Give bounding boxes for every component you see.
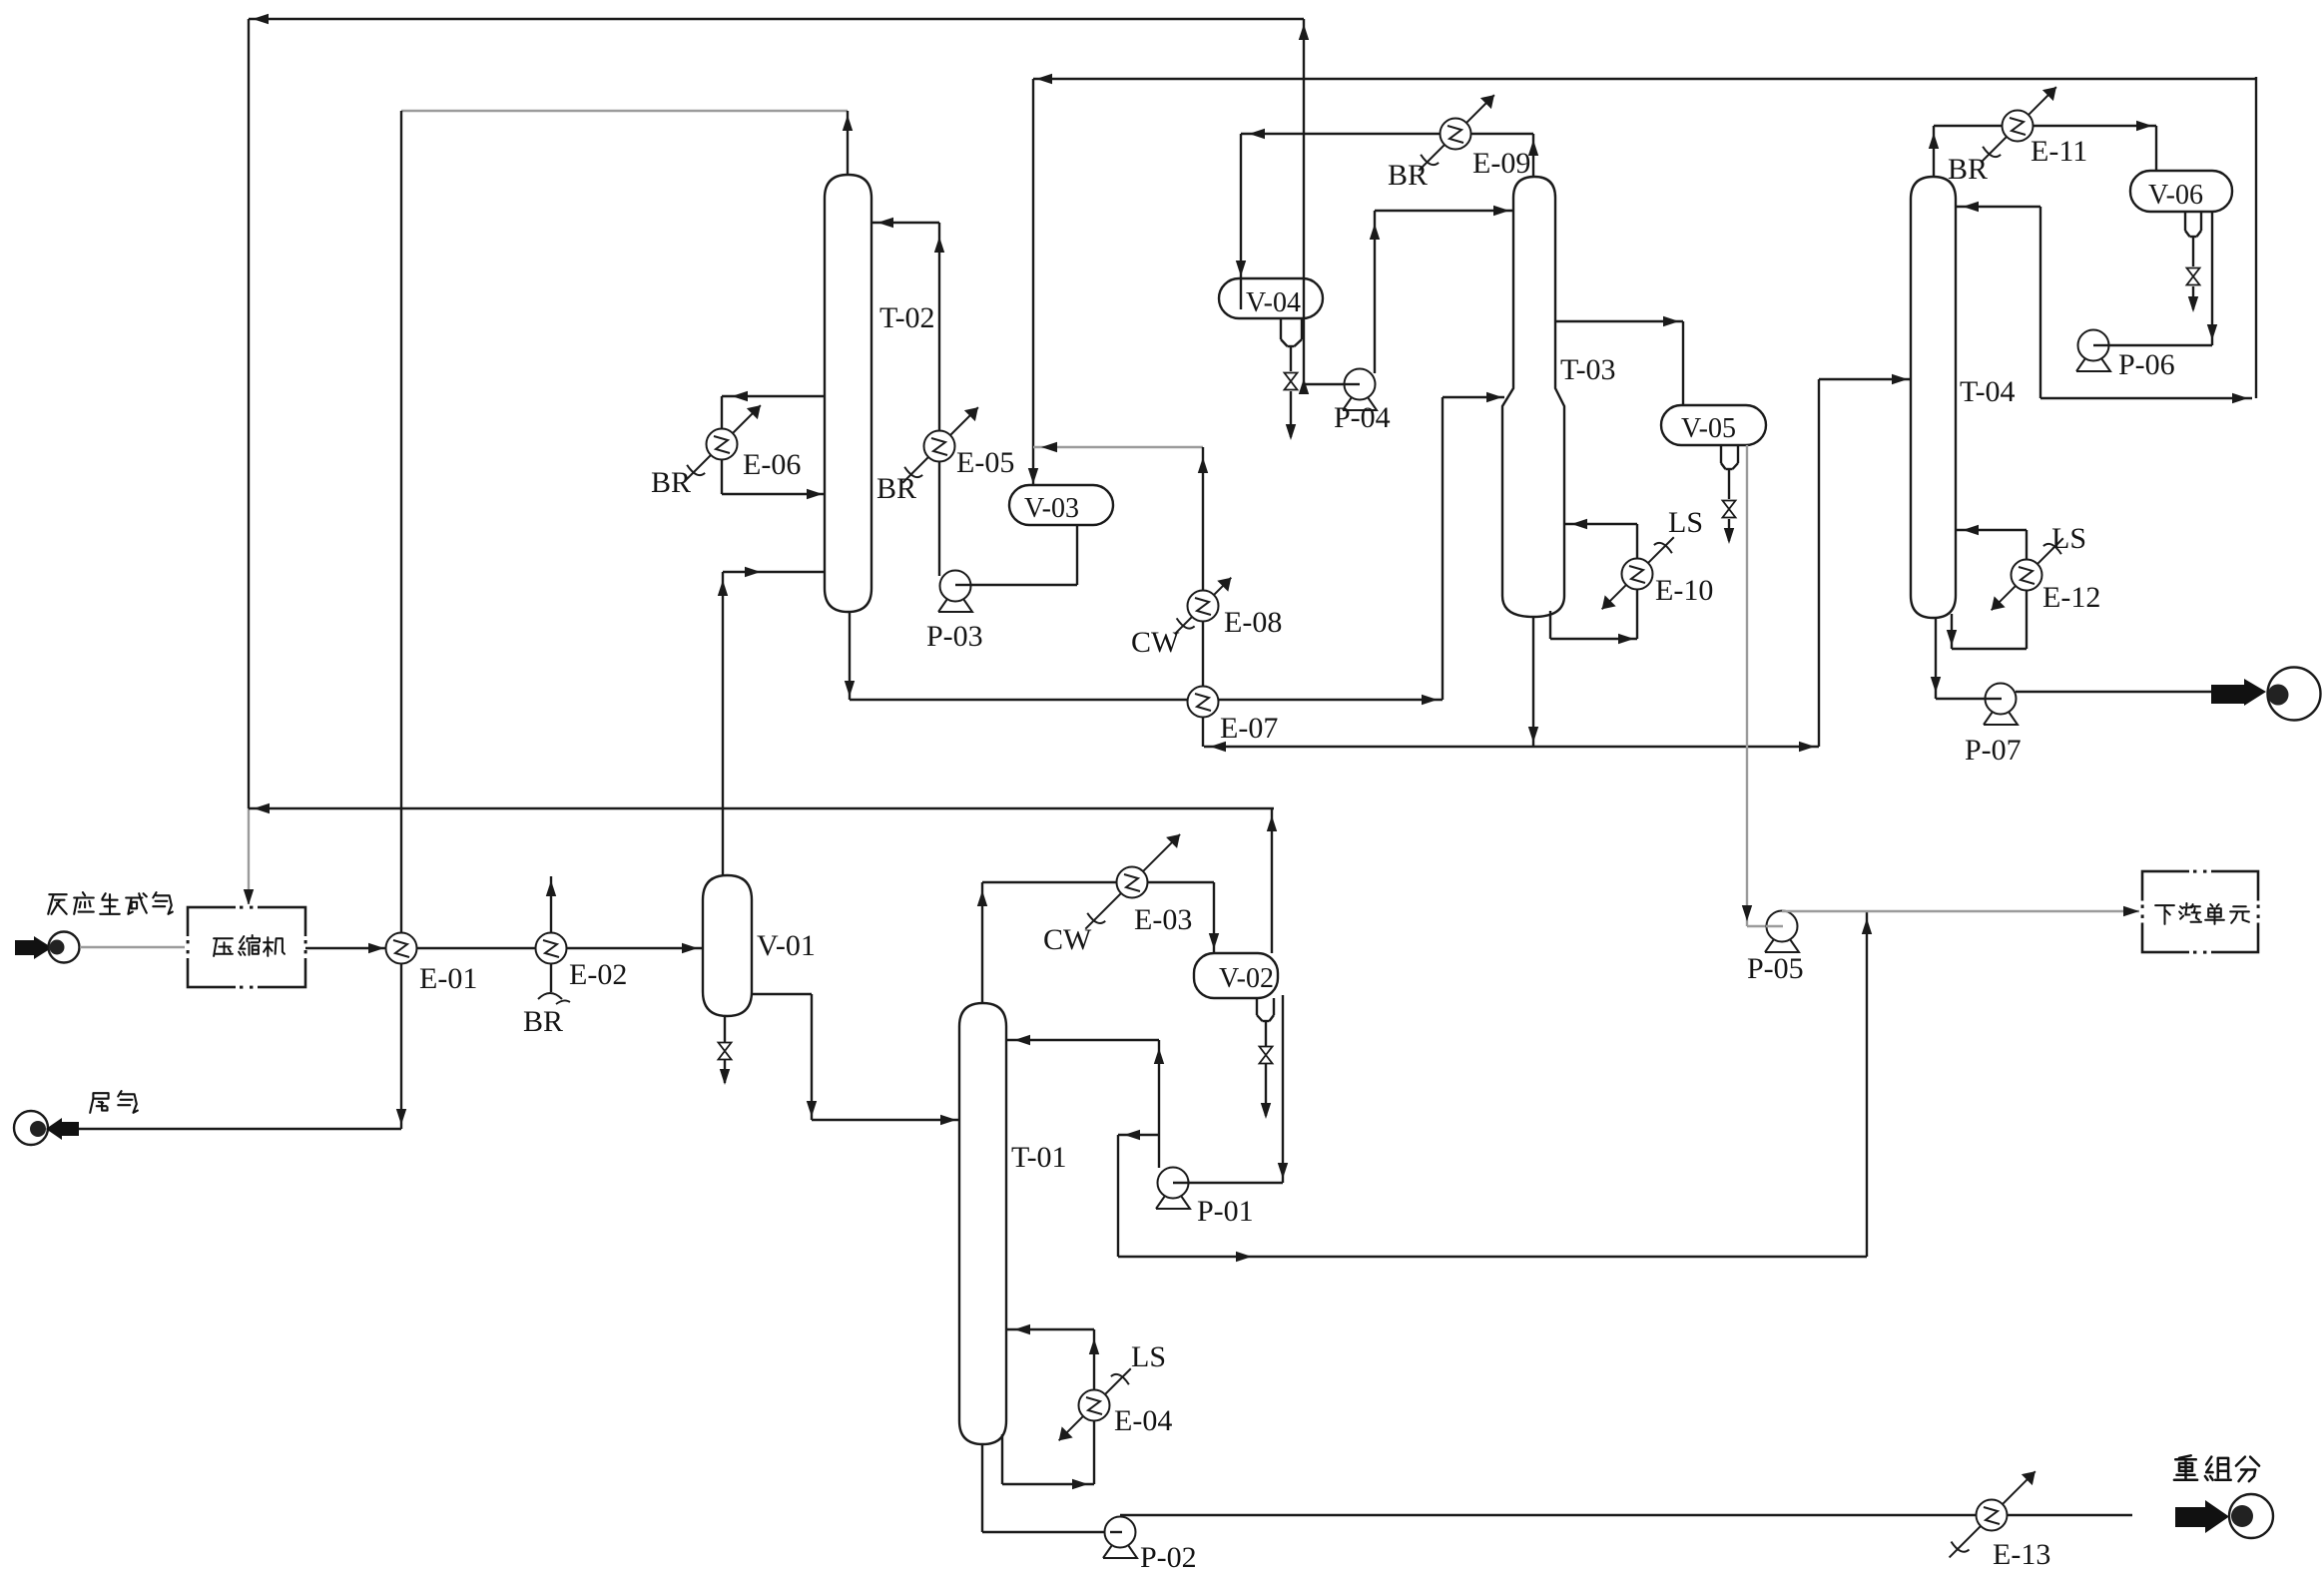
valve under V-02 [1260, 1021, 1273, 1119]
svg-text:LS: LS [2051, 522, 2086, 555]
node outlet right symbol [2211, 668, 2321, 721]
label P-05 [1747, 952, 1804, 985]
vessel V-06 [2130, 171, 2232, 212]
svg-text:LS: LS [1131, 1340, 1166, 1373]
pump P-06 [2076, 330, 2110, 372]
wire T-02 bottoms y701 to T-03 feed [845, 392, 1504, 705]
node outlet 重组分 symbol [2175, 1494, 2273, 1538]
wire P-01 discharge riser and reflux [1007, 1035, 1164, 1168]
label LS for E-10 [1668, 506, 1703, 539]
svg-text:P-01: P-01 [1197, 1195, 1254, 1228]
svg-text:E-07: E-07 [1220, 712, 1278, 745]
heat exchanger E-09 with BR [1419, 95, 1494, 171]
svg-text:V-06: V-06 [2148, 180, 2203, 211]
svg-text:T-01: T-01 [1011, 1141, 1067, 1174]
reboiler loop E-06 wires [722, 391, 825, 499]
label 尾气 [90, 1091, 138, 1113]
wire recycle top line y19 [249, 14, 1304, 24]
wire V-02 riser x1276 [1267, 808, 1277, 953]
vessel V-01 [703, 875, 752, 1016]
svg-text:E-05: E-05 [956, 446, 1014, 479]
wire recycle downcomer x249 to compressor [244, 19, 254, 906]
label CW for E-03 [1043, 923, 1092, 956]
label E-12 [2042, 581, 2100, 614]
wire T-03 side draw to V-05 [1555, 316, 1683, 405]
wire P-05 discharge grey y913 [1782, 906, 2142, 916]
svg-text:T-02: T-02 [879, 301, 935, 334]
svg-text:P-04: P-04 [1334, 401, 1391, 434]
boot under V-02 [1257, 998, 1274, 1021]
wire V-02 bottoms to P-01 [1175, 995, 1288, 1183]
svg-text:E-08: E-08 [1224, 606, 1282, 639]
label E-08 [1224, 606, 1282, 639]
label E-03 [1134, 903, 1192, 936]
node inlet 反应生成气 symbol [15, 932, 80, 963]
svg-text:V-05: V-05 [1681, 413, 1736, 444]
svg-text:E-02: E-02 [569, 958, 627, 991]
wire T-01 bottoms y1523 [982, 1444, 1110, 1532]
wire V-01 overhead to T-02 [718, 567, 825, 875]
label E-10 [1655, 574, 1713, 607]
wire T-03 overhead y134 [1241, 129, 1538, 177]
svg-text:BR: BR [651, 466, 691, 499]
column T-02 [825, 175, 871, 612]
wire P-04 discharge to T-03 reflux [1370, 206, 1513, 373]
heat exchanger E-01 [386, 933, 417, 964]
valve under V-05 [1723, 469, 1736, 544]
wire T-03 bottom outlet [1528, 617, 1538, 747]
label P-04 [1334, 401, 1391, 434]
label T-02 [879, 301, 935, 334]
wire P-02 discharge y1518 [1120, 1514, 2132, 1516]
heat exchanger E-11 with BR [1981, 87, 2056, 163]
wire T-04 bottoms to P-07 [1931, 618, 1987, 699]
svg-text:P-06: P-06 [2118, 348, 2175, 381]
svg-text:V-01: V-01 [757, 929, 816, 962]
svg-text:P-07: P-07 [1965, 734, 2022, 767]
wire E-08/E-07 vertical x1205 [1198, 447, 1208, 747]
label BR for E-05 [876, 472, 916, 505]
svg-text:E-01: E-01 [419, 962, 477, 995]
valve under V-01 [719, 1016, 732, 1085]
label BR for E-11 [1948, 153, 1988, 186]
wire V-04 recycle riser x1306 [1299, 19, 1360, 394]
wire T-04 feed riser x1822 [1819, 374, 1911, 747]
heat exchanger E-03 with CW [1085, 834, 1180, 929]
svg-text:E-10: E-10 [1655, 574, 1713, 607]
node outlet 尾气 symbol [14, 1111, 79, 1145]
pump P-02 [1103, 1517, 1137, 1559]
label BR for E-06 [651, 466, 691, 499]
svg-text:BR: BR [1948, 153, 1988, 186]
wire T-03 bottoms header y748 [1204, 742, 1819, 752]
svg-text:E-13: E-13 [1993, 1538, 2050, 1571]
label 反应生成气 [48, 892, 173, 914]
label CW for E-08 [1131, 626, 1180, 659]
label E-04 [1114, 1404, 1172, 1437]
label V-03 [1024, 493, 1079, 524]
reboiler loop E-10 wires [1550, 519, 1637, 644]
svg-text:LS: LS [1668, 506, 1703, 539]
wire E-05 riser x941 [934, 223, 944, 576]
wire P-06 discharge riser and T-04 reflux [1956, 202, 2040, 398]
svg-text:V-03: V-03 [1024, 493, 1079, 524]
svg-text:CW: CW [1131, 626, 1180, 659]
label E-11 [2031, 135, 2087, 168]
label BR for E-02 [523, 1005, 563, 1038]
wire distillate header y79 [1033, 74, 2256, 84]
label 重组分 [2174, 1455, 2259, 1481]
label P-06 [2118, 348, 2175, 381]
label E-09 [1472, 147, 1530, 180]
boot under V-04 [1281, 318, 1302, 346]
vessel V-05 [1661, 405, 1766, 445]
label E-01 [419, 962, 477, 995]
svg-text:BR: BR [876, 472, 916, 505]
wire T-02 overhead grey y111 [401, 110, 848, 112]
label V-06 [2148, 180, 2203, 211]
wire V-03 bottoms to P-03 [970, 525, 1077, 585]
label BR for E-09 [1388, 159, 1428, 192]
boot under V-06 [2185, 212, 2201, 237]
column T-03 [1502, 177, 1564, 617]
label E-13 [1993, 1538, 2050, 1571]
vessel V-02 [1194, 953, 1278, 998]
vessel V-04 [1219, 278, 1323, 318]
wire V-05 to P-05 grey [1742, 445, 1768, 926]
label V-02 [1219, 963, 1274, 994]
svg-text:E-06: E-06 [743, 448, 801, 481]
label 下游单元 [2155, 903, 2249, 924]
label T-04 [1960, 375, 2016, 408]
vessel V-03 [1009, 485, 1113, 525]
wire T-02 reflux return y223 [871, 218, 939, 228]
heat exchanger E-06 with BR [685, 405, 761, 481]
svg-text:E-04: E-04 [1114, 1404, 1172, 1437]
heat exchanger E-07 interchanger [1188, 687, 1219, 718]
heat exchanger E-04 with LS [1059, 1368, 1131, 1440]
pump P-01 [1156, 1168, 1190, 1210]
box 下游单元 [2139, 868, 2261, 955]
reboiler loop E-04 wires [1002, 1324, 1099, 1489]
svg-text:BR: BR [1388, 159, 1428, 192]
label 压缩机 [214, 935, 285, 956]
label T-01 [1011, 1141, 1067, 1174]
label LS for E-04 [1131, 1340, 1166, 1373]
wire distillate to recycle header [2040, 77, 2256, 403]
label E-07 [1220, 712, 1278, 745]
svg-text:T-04: T-04 [1960, 375, 2016, 408]
svg-text:V-02: V-02 [1219, 963, 1274, 994]
pump P-04 [1343, 369, 1377, 411]
heat exchanger E-08 with CW [1175, 578, 1232, 635]
svg-text:BR: BR [523, 1005, 563, 1038]
wire V-03 feed drop x1035 [1028, 79, 1038, 485]
wire E-08 to V-03 grey y448 [1033, 442, 1203, 452]
wire product riser x1870 [1862, 911, 1872, 1257]
heat exchanger E-02 with BR utility [536, 876, 571, 1004]
wire V-02 vapor header y810 [249, 803, 1274, 813]
wire T-01 overhead y884 [977, 882, 1219, 1003]
heat exchanger E-05 with BR [902, 407, 978, 483]
label T-03 [1560, 353, 1616, 386]
label LS for E-12 [2051, 522, 2086, 555]
pump P-03 [938, 571, 972, 613]
wire T-04 overhead y126 [1929, 121, 2156, 177]
column T-04 [1911, 177, 1956, 618]
wire V-01 bottoms to T-01 feed [752, 994, 959, 1125]
wire tailgas line y1131 [78, 1128, 401, 1130]
compressor 压缩机 box [185, 904, 308, 990]
svg-text:E-09: E-09 [1472, 147, 1530, 180]
label V-01 [757, 929, 816, 962]
svg-text:P-02: P-02 [1140, 1541, 1197, 1574]
column T-01 [959, 1003, 1006, 1444]
pump P-07 [1984, 684, 2018, 726]
label P-02 [1140, 1541, 1197, 1574]
valve under V-06 [2187, 237, 2200, 312]
wire condensate drop to V-04 [1236, 134, 1246, 309]
boot under V-05 [1721, 445, 1738, 469]
wire P-01 product branch [1118, 1130, 1867, 1262]
label P-01 [1197, 1195, 1254, 1228]
svg-text:P-05: P-05 [1747, 952, 1804, 985]
wire P-07 discharge [2016, 691, 2211, 693]
label E-06 [743, 448, 801, 481]
svg-text:E-03: E-03 [1134, 903, 1192, 936]
heat exchanger E-12 with LS [1992, 538, 2063, 610]
svg-text:P-03: P-03 [926, 620, 983, 653]
reboiler loop E-12 wires [1947, 525, 2027, 649]
svg-text:CW: CW [1043, 923, 1092, 956]
heat exchanger E-10 with LS [1602, 537, 1674, 609]
svg-text:E-11: E-11 [2031, 135, 2087, 168]
wire compressor discharge y950 [305, 943, 703, 953]
label V-05 [1681, 413, 1736, 444]
wire inlet to compressor grey [80, 946, 188, 948]
label P-03 [926, 620, 983, 653]
wire V-06 bottoms to P-06 [2095, 212, 2217, 345]
wire tailgas drop x402 through E-01 [396, 111, 406, 1129]
svg-text:V-04: V-04 [1246, 287, 1301, 318]
pump P-05 [1765, 911, 1799, 953]
label P-07 [1965, 734, 2022, 767]
label E-05 [956, 446, 1014, 479]
valve under V-04 [1285, 346, 1298, 440]
svg-text:T-03: T-03 [1560, 353, 1616, 386]
label V-04 [1246, 287, 1301, 318]
heat exchanger E-13 [1950, 1471, 2035, 1557]
svg-text:E-12: E-12 [2042, 581, 2100, 614]
wire T-02 top riser [843, 111, 853, 175]
label E-02 [569, 958, 627, 991]
